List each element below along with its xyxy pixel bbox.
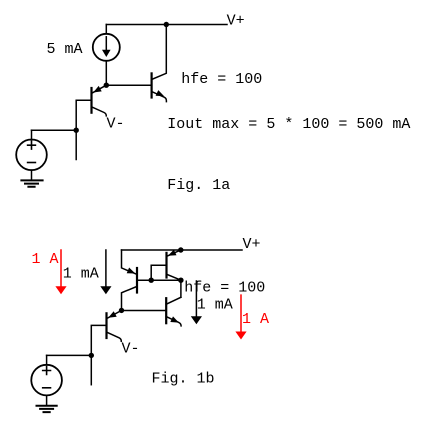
node D junction dot bbox=[119, 308, 124, 313]
transistor Q3 pnp emitter from rail with arrow bbox=[122, 250, 138, 274]
voltage source V1 plus sign bbox=[28, 141, 36, 149]
current arrow 1 mA left (black) bbox=[100, 250, 111, 294]
transistor Q4 pnp emitter from rail dot with arrow bbox=[167, 250, 181, 257]
wire node A to base of Q2 bbox=[106, 84, 151, 86]
wire Q3 base to node C bbox=[137, 279, 181, 281]
ground symbol fig1b bbox=[37, 406, 57, 412]
svg-text:V-: V- bbox=[122, 341, 140, 358]
node C1 junction dot bbox=[149, 278, 154, 283]
transistor Q2 collector to V+ rail bbox=[152, 25, 167, 80]
svg-text:Fig. 1b: Fig. 1b bbox=[152, 371, 215, 388]
svg-text:V+: V+ bbox=[243, 236, 261, 253]
voltage source V1 circle bbox=[16, 140, 47, 171]
transistor Q4 collector to node C bbox=[167, 274, 181, 280]
wire node B stub down bbox=[75, 130, 77, 159]
current arrow 1 A right (red) bbox=[235, 295, 246, 339]
svg-text:Iout max = 5 * 100 = 500 mA: Iout max = 5 * 100 = 500 mA bbox=[167, 116, 410, 133]
transistor Q6 pnp emitter from node D with arrow bbox=[107, 310, 122, 318]
transistor Q3 pnp base bar bbox=[136, 268, 138, 293]
wire I1 bottom to node A bbox=[105, 61, 107, 85]
current source I1 (5 mA) circle bbox=[93, 34, 120, 61]
voltage source V2 plus sign bbox=[43, 367, 51, 375]
voltage source V2 minus sign bbox=[43, 387, 51, 389]
transistor Q5 npn collector diagonal bbox=[166, 297, 181, 304]
wire V1 bottom to ground bbox=[31, 170, 33, 180]
wire Q5 base to node D bbox=[122, 310, 167, 312]
voltage source V1 minus sign bbox=[28, 162, 36, 164]
wire V+ rail fig1b bbox=[122, 249, 243, 251]
svg-text:1 A: 1 A bbox=[242, 311, 269, 328]
wire node C down to Q5 collector bbox=[180, 280, 182, 297]
svg-text:hfe = 100: hfe = 100 bbox=[184, 280, 265, 297]
svg-text:1 mA: 1 mA bbox=[63, 266, 99, 283]
wire V2 top corner bbox=[46, 355, 48, 364]
wire Q4 base loop to node C wire bbox=[151, 265, 166, 280]
wire V+ rail fig1a bbox=[106, 24, 227, 26]
wire rail corner down to current source I1 bbox=[105, 25, 107, 34]
ground symbol fig1a bbox=[21, 180, 42, 186]
transistor Q1 pnp base bar bbox=[90, 88, 92, 113]
wire node E to source V2 bbox=[47, 354, 92, 356]
transistor Q2 emitter with arrow bbox=[152, 90, 167, 102]
wire V2 bottom to ground bbox=[46, 395, 48, 405]
node B junction dot bbox=[74, 128, 79, 133]
wire Q6 base left and down to node E bbox=[91, 325, 106, 355]
node on V+ rail junction dot bbox=[164, 22, 169, 27]
current source I1 arrow bbox=[102, 37, 111, 57]
transistor Q6 pnp base bar bbox=[105, 313, 107, 338]
current arrow 1 A left (red) bbox=[55, 250, 66, 294]
node C junction dot bbox=[178, 278, 183, 283]
svg-text:1 mA: 1 mA bbox=[197, 296, 233, 313]
transistor Q3 collector down to node D bbox=[122, 286, 138, 310]
transistor Q5 emitter with arrow bbox=[166, 316, 181, 326]
svg-text:V+: V+ bbox=[227, 13, 245, 30]
voltage source V2 circle bbox=[31, 365, 62, 396]
wire node B to source V1 bbox=[32, 129, 77, 131]
current arrow 1 mA right (black) bbox=[191, 281, 202, 324]
svg-text:1 A: 1 A bbox=[32, 251, 59, 268]
transistor Q1 pnp emitter diagonal from node A bbox=[92, 85, 107, 93]
transistor Q4 pnp base bar bbox=[165, 253, 167, 278]
svg-text:Fig. 1a: Fig. 1a bbox=[167, 177, 230, 194]
wire node E stub down bbox=[90, 355, 92, 384]
svg-text:V-: V- bbox=[107, 116, 125, 133]
wire V1 top corner bbox=[31, 130, 33, 139]
transistor Q1 collector to V- stub bbox=[92, 107, 107, 116]
svg-text:hfe = 100: hfe = 100 bbox=[181, 71, 262, 88]
wire Q1 base left and down to node B bbox=[76, 100, 91, 130]
transistor Q5 npn base bar bbox=[165, 298, 167, 323]
node A junction dot (base node) bbox=[104, 83, 109, 88]
transistor Q2 npn base bar bbox=[151, 73, 153, 97]
node E junction dot bbox=[89, 353, 94, 358]
node on V+ rail fig1b junction dot bbox=[178, 247, 183, 252]
transistor Q6 collector to V- stub bbox=[107, 332, 122, 341]
svg-text:5 mA: 5 mA bbox=[47, 41, 83, 58]
